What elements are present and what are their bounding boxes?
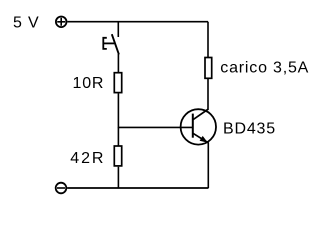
collector lead (193, 109, 209, 120)
transistor Q1 BD435 (NPN) (181, 109, 216, 145)
svg-text:carico 3,5A: carico 3,5A (220, 59, 309, 76)
switch (push-button) lever (112, 34, 119, 54)
wire base (118, 126, 192, 128)
transistor body circle (181, 109, 216, 144)
emitter arrow (200, 136, 208, 143)
resistor carico (load) (205, 58, 212, 79)
resistor 10R (114, 73, 121, 93)
wire top rail (67, 21, 208, 23)
svg-text:5 V: 5 V (13, 14, 39, 31)
wire right branch top (207, 22, 209, 58)
emitter lead (193, 133, 209, 143)
wire 10R to base node (117, 93, 119, 128)
resistor 42R (114, 146, 121, 166)
svg-text:BD435: BD435 (223, 120, 276, 137)
terminal - negative supply (56, 183, 67, 194)
wire switch top stub (117, 22, 119, 37)
wire bottom rail (67, 187, 208, 189)
wire 42R to bottom rail (117, 167, 119, 188)
terminal + positive supply (56, 17, 67, 28)
base bar (192, 114, 194, 138)
wire emitter to bottom rail (207, 143, 209, 189)
svg-text:10R: 10R (73, 75, 105, 92)
wire base node to 42R (117, 127, 119, 145)
switch actuator bracket (103, 38, 114, 49)
wire load to collector (207, 79, 209, 110)
wire switch to 10R (117, 54, 119, 73)
svg-text:42R: 42R (70, 150, 105, 167)
